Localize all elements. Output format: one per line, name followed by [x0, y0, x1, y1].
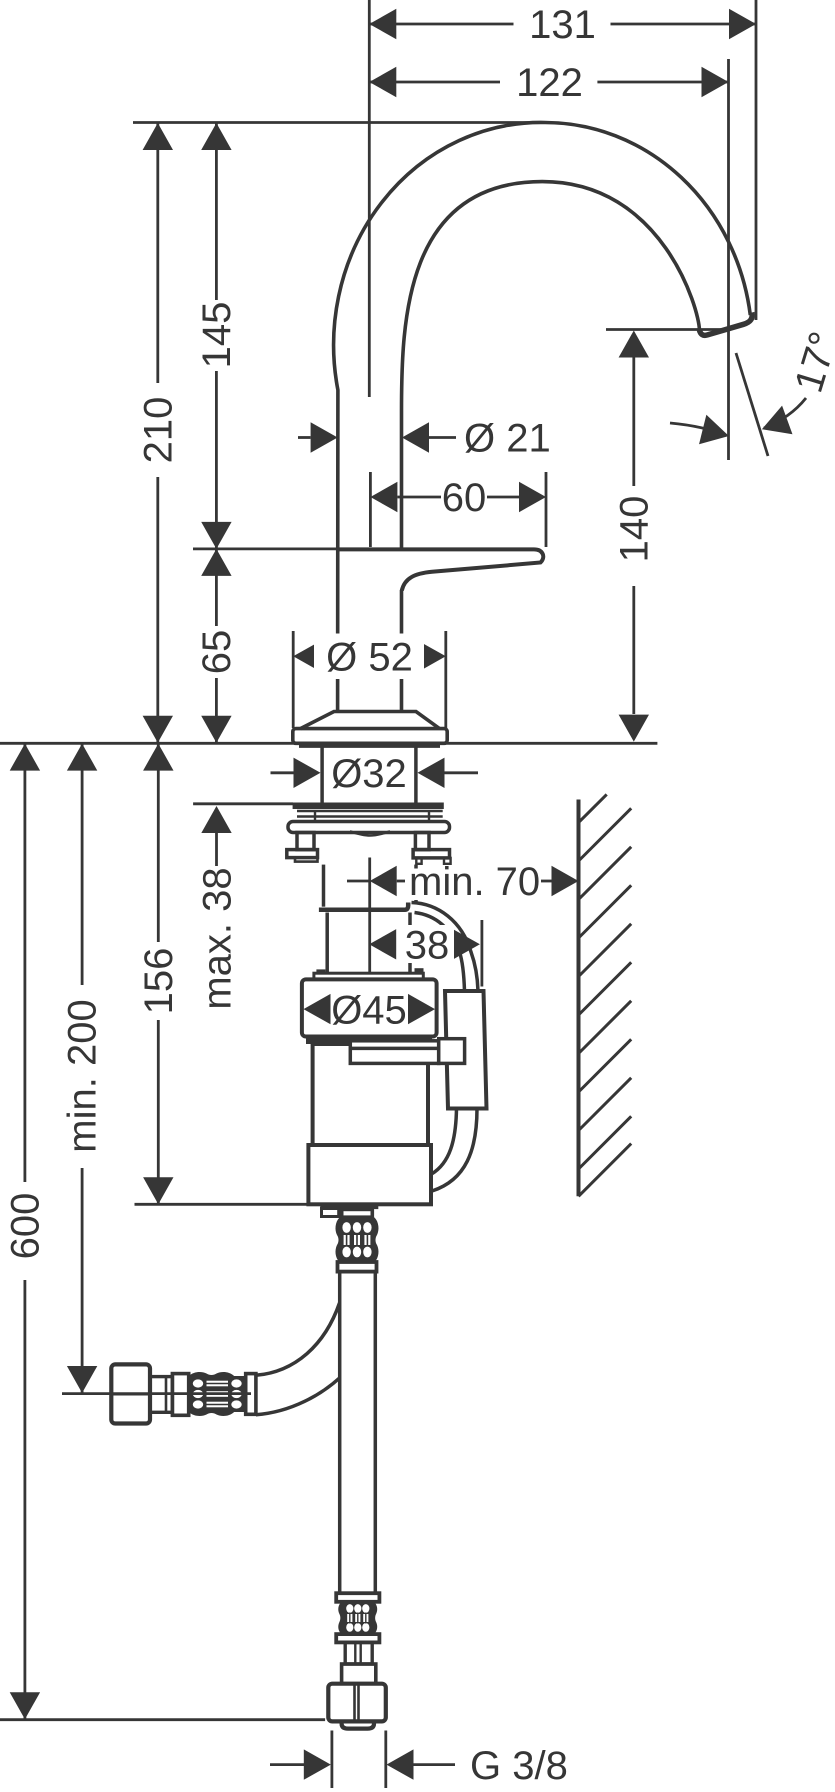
left hose collar — [172, 1374, 188, 1416]
dimension 210 — [137, 123, 181, 743]
svg-text:60: 60 — [442, 476, 487, 520]
svg-text:122: 122 — [516, 61, 583, 105]
dimension max 38 — [193, 804, 293, 1010]
dimension diameter 52 — [293, 631, 446, 728]
bottom cap — [342, 1721, 374, 1728]
svg-text:min. 70: min. 70 — [409, 860, 540, 904]
dimension 131 — [369, 3, 756, 47]
left hose shaft — [150, 1377, 172, 1413]
extension line handle level — [193, 548, 339, 551]
deck line — [0, 742, 657, 745]
handle lever — [339, 549, 543, 590]
17 degree leader right — [757, 398, 806, 443]
svg-text:210: 210 — [137, 397, 181, 464]
17 degree leader left — [670, 415, 733, 451]
braided connector top — [336, 1218, 379, 1263]
extension line min 200 — [62, 1392, 251, 1395]
svg-text:G 3/8: G 3/8 — [470, 1744, 568, 1788]
mounting right leg — [415, 833, 429, 850]
left braided connector — [189, 1372, 246, 1416]
svg-text:145: 145 — [195, 302, 239, 369]
wall face line — [577, 800, 581, 1197]
bottom block — [342, 1664, 376, 1684]
spout outlet face — [699, 313, 752, 336]
spout outer curve — [334, 122, 751, 711]
dimension min 200 — [61, 744, 105, 1393]
mounting washer bar — [293, 803, 444, 810]
dimension 38 — [369, 920, 482, 987]
dimension 122 — [369, 61, 728, 105]
svg-text:65: 65 — [195, 630, 239, 675]
dimension 156 — [137, 744, 181, 1205]
lower tube — [325, 913, 329, 974]
dimension min 70 — [347, 858, 579, 974]
side outlet stub — [350, 1039, 464, 1064]
mounting left leg — [297, 833, 314, 850]
base trapezoid — [300, 712, 439, 729]
dimension diameter 45 — [304, 988, 436, 1032]
extension line 131 right — [755, 0, 758, 320]
dimension diameter 32 — [271, 752, 479, 796]
dimension 145 — [195, 123, 239, 549]
mounting nut notch — [350, 831, 390, 835]
hose top collar — [342, 1209, 373, 1217]
svg-text:131: 131 — [529, 3, 596, 47]
shoulder with cable stub — [319, 903, 408, 910]
bottom nut — [328, 1684, 386, 1722]
left hose curves — [256, 1303, 340, 1375]
cable upper curve — [412, 903, 479, 992]
svg-text:Ø 21: Ø 21 — [464, 417, 551, 461]
base band — [293, 729, 447, 744]
extension line 156 bottom — [135, 1203, 310, 1206]
extension line 600 bottom — [0, 1718, 325, 1721]
wall hatching — [579, 794, 632, 1196]
dimension 65 — [195, 549, 239, 743]
left hose nut — [111, 1364, 150, 1423]
dimension 140 — [606, 330, 731, 742]
cable lower curve — [432, 1109, 477, 1192]
mounting left foot — [287, 850, 318, 858]
svg-text:140: 140 — [613, 496, 657, 563]
dimension G 3/8 — [270, 1731, 568, 1789]
svg-text:156: 156 — [137, 948, 181, 1015]
tube below mounting — [322, 865, 326, 907]
hose nipple black bar — [320, 1203, 378, 1209]
base bottom thick edge — [299, 743, 440, 748]
valve body wide section — [308, 1145, 431, 1204]
left hose end collar — [246, 1374, 256, 1415]
diameter 45 block — [302, 979, 437, 1036]
dimension 600 — [4, 744, 48, 1720]
svg-text:600: 600 — [4, 1193, 48, 1260]
valve body — [313, 1044, 428, 1145]
spout inner edge lower — [400, 590, 404, 712]
hose left tab — [322, 1209, 339, 1217]
svg-text:Ø45: Ø45 — [331, 988, 407, 1032]
svg-text:Ø32: Ø32 — [331, 752, 407, 796]
shank below deck — [320, 743, 324, 802]
mounting right foot — [413, 850, 449, 858]
17 degree reference line — [736, 353, 768, 456]
svg-text:38: 38 — [405, 924, 450, 968]
top tangent extension line — [133, 121, 547, 124]
hose bottom collar — [338, 1262, 377, 1272]
cable capsule — [445, 991, 487, 1109]
spout inner curve upper — [402, 182, 700, 549]
svg-text:min. 200: min. 200 — [61, 999, 105, 1152]
svg-text:max. 38: max. 38 — [196, 867, 240, 1009]
bottom shaft — [345, 1642, 372, 1664]
dimension 60 — [370, 472, 546, 547]
extension line 122 right — [727, 59, 730, 460]
main hose walls — [338, 1272, 342, 1594]
black band under block — [306, 1037, 432, 1044]
extension line center axis top — [368, 0, 371, 397]
mounting nut band — [288, 822, 450, 833]
dimension diameter 21 — [298, 417, 551, 461]
bottom braided connector — [336, 1593, 379, 1602]
svg-text:Ø 52: Ø 52 — [326, 636, 413, 680]
mounting washer lines — [297, 810, 443, 813]
washer above block — [314, 973, 423, 981]
